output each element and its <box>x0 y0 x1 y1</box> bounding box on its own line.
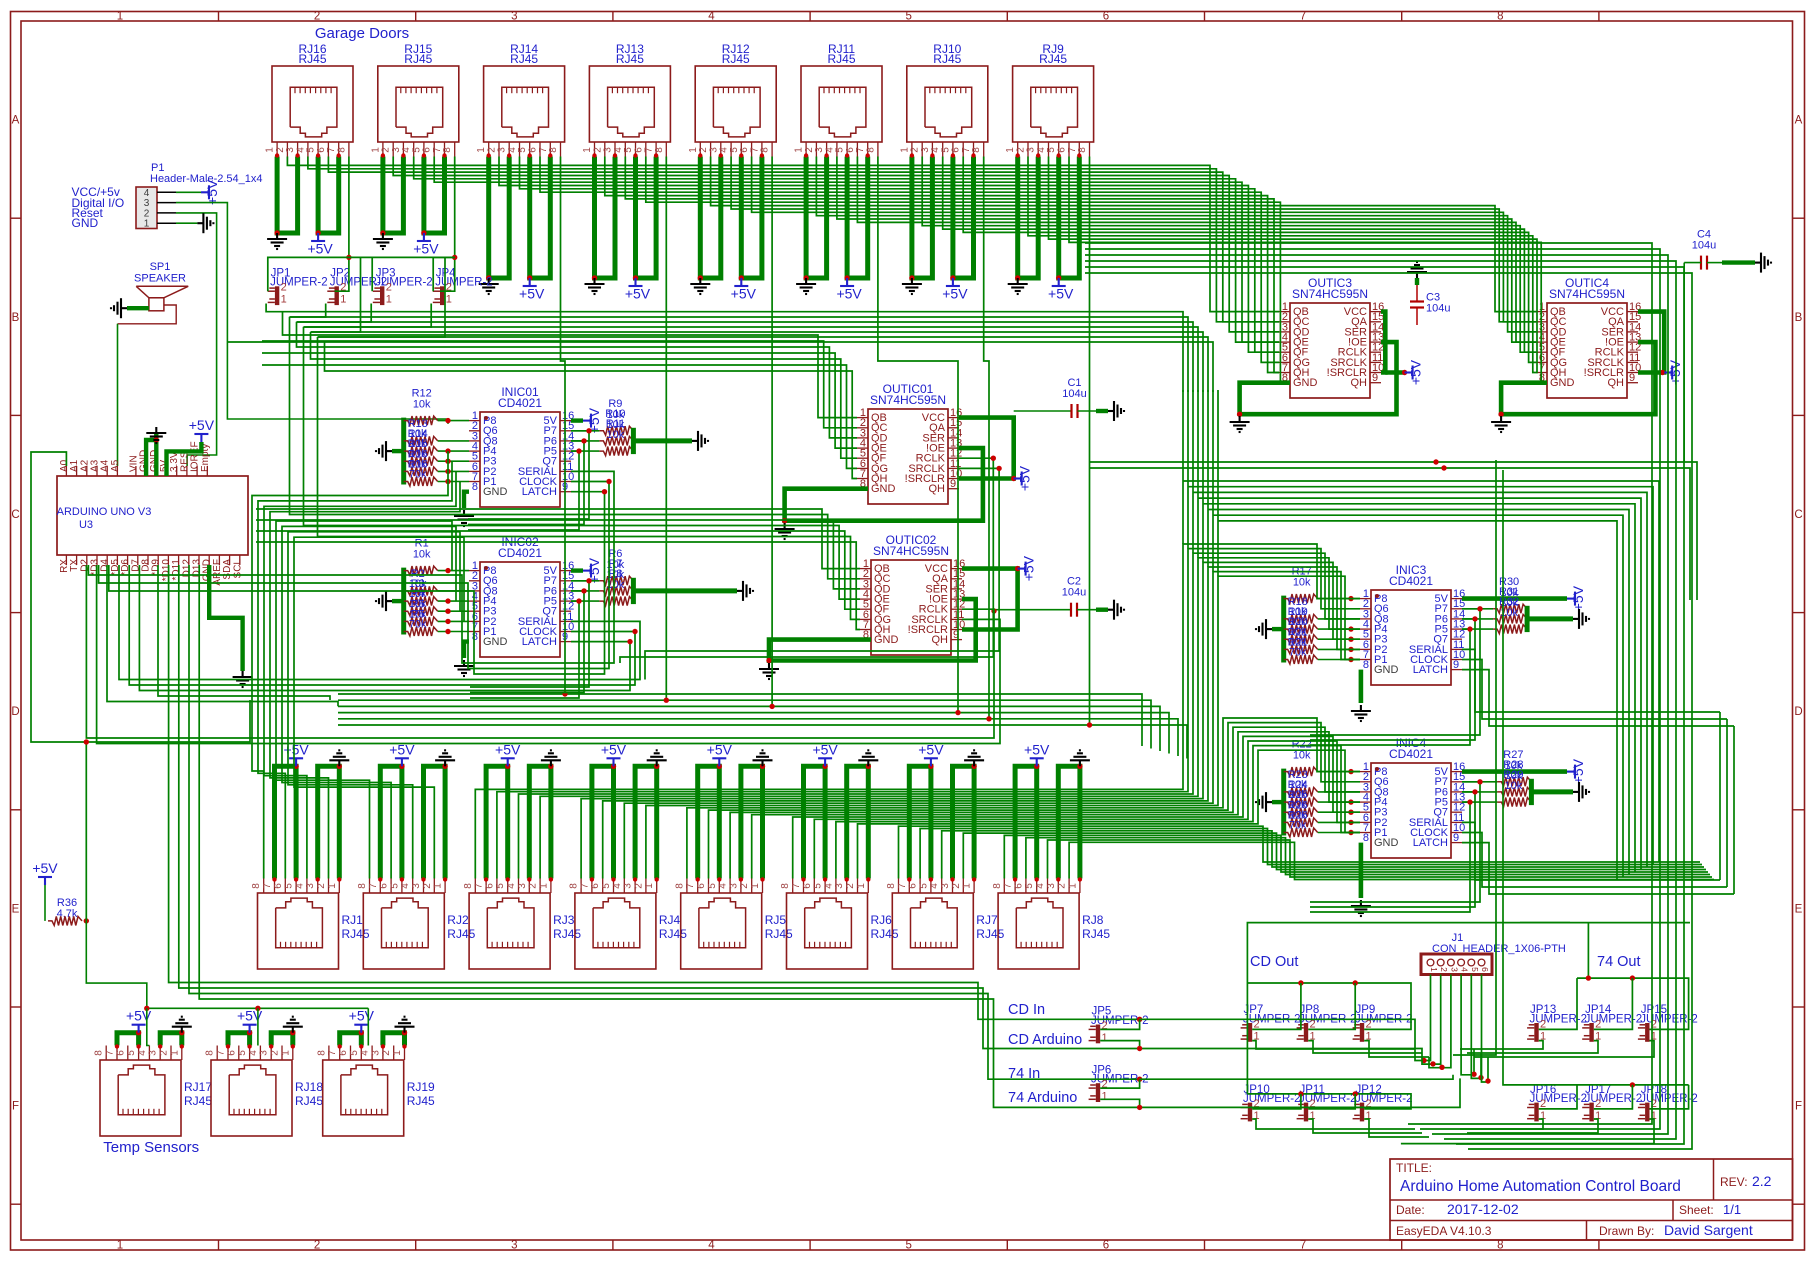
jumper JP8 JUMPER-2 <box>1297 1004 1357 1042</box>
wire RJ5 pins 1-3 ground loop <box>741 766 763 878</box>
wire RJ10 pins 5-7 +5V loop <box>953 157 974 279</box>
svg-text:4: 4 <box>506 883 517 889</box>
wire RJ2 pins 1-3 ground loop <box>424 766 446 878</box>
wire top band to OUTIC3 input <box>287 157 1279 312</box>
wire INIC02 GND pin to ground <box>464 642 469 658</box>
wire U3 5V pin to +5V <box>167 442 202 476</box>
svg-text:10k: 10k <box>607 429 625 441</box>
IC OUTIC4 SN74HC595N <box>1536 276 1641 398</box>
svg-text:7: 7 <box>368 883 379 889</box>
svg-text:CD4021: CD4021 <box>1389 747 1433 761</box>
svg-text:RJ4: RJ4 <box>659 913 681 927</box>
wire D12 74 In rail <box>189 565 1140 1079</box>
wire INIC02 CLOCK out <box>129 565 635 685</box>
wire RJ16 pins 5-7 +5V loop <box>318 157 339 234</box>
svg-text:SN74HC595N: SN74HC595N <box>873 544 949 558</box>
svg-text:1: 1 <box>446 294 452 306</box>
svg-text:Temp Sensors: Temp Sensors <box>103 1139 199 1156</box>
svg-text:+5V: +5V <box>1408 359 1424 385</box>
jumper JP14 JUMPER-2 <box>1582 1004 1642 1042</box>
wire right verticals lower <box>1719 712 1721 880</box>
jumper JP16 JUMPER-2 <box>1527 1084 1587 1122</box>
svg-text:1: 1 <box>144 219 150 230</box>
wire top band to OUTIC3 input <box>434 157 1279 343</box>
wire left bundle to OUTIC02 <box>304 327 861 599</box>
wire right bundle horizontals <box>1090 462 1697 600</box>
wire JP net to mid-right bundle <box>290 317 1189 392</box>
wire staircase to INIC3 right side <box>1208 510 1629 875</box>
svg-text:RJ8: RJ8 <box>1082 913 1104 927</box>
svg-text:1: 1 <box>117 1240 123 1252</box>
+5V flag INIC02 <box>583 564 591 578</box>
wire RJ4 pins 1-3 ground loop <box>635 766 657 878</box>
svg-text:1: 1 <box>392 1050 403 1056</box>
svg-text:1: 1 <box>169 1050 180 1056</box>
IC INIC02 CD4021 <box>469 535 574 657</box>
ground RJ16 <box>267 233 287 249</box>
connector RJ15 RJ45 (garage door) <box>370 42 458 157</box>
wire bottom RJ to INIC3 input <box>581 562 1360 878</box>
svg-text:4: 4 <box>708 11 715 23</box>
wire staircase to INIC3 right side <box>1218 521 1617 880</box>
jumper JP12 JUMPER-2 <box>1353 1084 1413 1122</box>
svg-text:3: 3 <box>623 883 634 889</box>
svg-text:+5V: +5V <box>189 417 215 433</box>
svg-text:TITLE:: TITLE: <box>1396 1161 1432 1175</box>
svg-text:74 Out: 74 Out <box>1597 954 1641 970</box>
svg-text:GND: GND <box>1293 377 1318 389</box>
wire top band to OUTIC4 input <box>922 157 1536 353</box>
svg-text:8: 8 <box>654 147 665 153</box>
ground RJ5 <box>753 750 773 766</box>
svg-text:RJ45: RJ45 <box>295 1094 323 1108</box>
wire top RJ pin8 down to mid band <box>338 157 989 719</box>
wire top band to OUTIC4 input <box>1049 157 1538 373</box>
svg-text:4: 4 <box>137 1050 148 1056</box>
svg-text:CD4021: CD4021 <box>1389 574 1433 588</box>
svg-text:EasyEDA V4.10.3: EasyEDA V4.10.3 <box>1396 1224 1492 1238</box>
ground P1 <box>197 213 213 233</box>
wire bottom RJ under INIC4 to right <box>1026 838 1710 879</box>
svg-text:74 Arduino: 74 Arduino <box>1008 1090 1077 1106</box>
wire JP14 pin1 <box>1467 1041 1598 1053</box>
wire band to OUTIC02 pin <box>256 509 860 569</box>
jumper JP18 JUMPER-2 <box>1638 1084 1698 1122</box>
wire U3 bottom GND to ground <box>209 565 242 671</box>
wire bottom RJ to INIC4 input <box>858 750 1361 878</box>
wire RJ18 pins 1-3 ground loop <box>271 1033 293 1046</box>
svg-text:+5V: +5V <box>1024 741 1050 757</box>
svg-text:GND: GND <box>1374 664 1399 676</box>
svg-text:7: 7 <box>1003 883 1014 889</box>
svg-text:ARDUINO UNO V3: ARDUINO UNO V3 <box>57 506 152 518</box>
wire D9 branch <box>158 565 330 700</box>
svg-text:2: 2 <box>381 1050 392 1056</box>
resistor network R9-R11 (pull-ups) <box>571 398 708 456</box>
svg-text:8: 8 <box>442 147 453 153</box>
wire JP16-18 pin2 rail <box>1577 1084 1689 1086</box>
svg-text:QH: QH <box>1608 377 1625 389</box>
svg-text:6: 6 <box>1103 1240 1109 1252</box>
wire J1 pin drop <box>1415 975 1431 1061</box>
connector RJ11 RJ45 (garage door) <box>794 42 882 157</box>
wire RJ19 pins 5-7 +5V loop <box>340 1033 362 1046</box>
+5V flag RJ11 <box>840 278 854 286</box>
wire P1 pin3 digital io <box>176 203 448 424</box>
svg-text:1: 1 <box>1102 1032 1108 1044</box>
IC OUTIC02 SN74HC595N <box>860 533 965 655</box>
wire top RJ pin8 down to mid band <box>338 157 666 701</box>
svg-text:E: E <box>12 903 20 915</box>
+5V flag P1 <box>201 185 209 199</box>
jumper JP11 JUMPER-2 <box>1297 1084 1357 1122</box>
wire D11 CD Arduino rail <box>179 565 1140 1049</box>
wire top band to OUTIC4 input <box>711 157 1536 312</box>
svg-text:9: 9 <box>1629 372 1635 384</box>
wire right bundle vertical <box>1085 267 1684 1144</box>
wire INIC3 5V to +5V <box>1462 596 1567 601</box>
resistor network R1-R5 (input pull-downs) <box>404 538 469 636</box>
capacitor C1 <box>1062 377 1086 418</box>
wire P1 branch <box>227 341 324 343</box>
svg-text:5: 5 <box>918 883 929 889</box>
wire CD4021 P input feed <box>1310 609 1480 735</box>
wire OUTIC01 SRCLK net <box>645 468 999 679</box>
svg-text:+5V: +5V <box>519 286 545 302</box>
svg-text:CD In: CD In <box>1008 1002 1045 1018</box>
wire mid band right segment <box>958 713 1169 754</box>
wire JP7 pin1 <box>1252 1041 1415 1049</box>
wire RJ7 pins 1-3 ground loop <box>953 766 975 878</box>
svg-text:2.2: 2.2 <box>1752 1173 1772 1189</box>
svg-text:+5V: +5V <box>1021 555 1037 581</box>
wire JP net to mid-right bundle <box>325 342 1214 392</box>
svg-text:8: 8 <box>316 1050 327 1056</box>
ground U3 top <box>146 427 166 443</box>
svg-text:U3: U3 <box>79 519 93 531</box>
svg-text:6: 6 <box>115 1050 126 1056</box>
svg-text:3: 3 <box>1046 883 1057 889</box>
svg-text:Garage Doors: Garage Doors <box>315 25 409 42</box>
svg-text:+5V: +5V <box>836 286 862 302</box>
wire bottom RJ to INIC4 input <box>730 727 1360 878</box>
wire RJ5 pins 5-7 +5V loop <box>698 766 720 878</box>
svg-text:2: 2 <box>159 1050 170 1056</box>
svg-text:1: 1 <box>327 883 338 889</box>
svg-text:3: 3 <box>517 883 528 889</box>
svg-text:1: 1 <box>280 1050 291 1056</box>
jumper JP17 JUMPER-2 <box>1582 1084 1642 1122</box>
wire CD Out net <box>1247 923 1570 1094</box>
ground RJ3 <box>541 750 561 766</box>
wire left bundle to OUTIC01 <box>311 332 858 458</box>
resistor R36 4.7k <box>45 885 82 925</box>
ground RJ15 <box>373 233 393 249</box>
wire RJ14 pins 1-3 ground loop <box>489 157 510 279</box>
wire INIC01 5V stub <box>571 418 583 422</box>
ground RJ18 <box>283 1017 303 1033</box>
wire JP10 pin1 <box>1252 1119 1415 1129</box>
+5V flag RJ7 <box>924 758 938 766</box>
wire bottom RJ to INIC3 input <box>497 549 1360 879</box>
wire band to OUTIC01 pin <box>262 353 857 448</box>
wire bottom RJ under INIC4 to right <box>1048 840 1713 879</box>
wire RJ11 pins 1-3 ground loop <box>806 157 827 279</box>
svg-text:RJ45: RJ45 <box>722 52 750 66</box>
svg-text:8: 8 <box>94 1050 105 1056</box>
wire OUTIC4 !OE to ground rail <box>1501 342 1655 414</box>
wire mid-right bundle vertical <box>1182 390 1184 544</box>
IC INIC01 CD4021 <box>469 385 574 507</box>
svg-text:5: 5 <box>905 1240 911 1252</box>
connector RJ9 RJ45 (garage door) <box>1005 42 1093 157</box>
wire staircase to INIC3 right side <box>1203 504 1635 872</box>
wire CD4021 P input feed <box>470 601 579 698</box>
wire mid-right bundle vertical <box>1207 390 1209 567</box>
ground RJ4 <box>647 750 667 766</box>
svg-text:8: 8 <box>251 883 262 889</box>
svg-text:RJ7: RJ7 <box>976 913 998 927</box>
svg-text:9: 9 <box>1453 659 1459 671</box>
svg-text:8: 8 <box>472 481 478 493</box>
svg-text:GND: GND <box>483 486 508 498</box>
wire RJ13 pins 1-3 ground loop <box>595 157 616 279</box>
wire JP net to mid-right bundle <box>304 327 1199 392</box>
ground RJ10 <box>902 278 922 294</box>
connector RJ6 RJ45 <box>780 879 899 970</box>
svg-text:4: 4 <box>360 1050 371 1056</box>
wire bottom RJ under INIC4 to right <box>1004 835 1708 878</box>
wire mid-right bundle vertical <box>1197 390 1199 558</box>
wire CD4021 P input feed <box>468 431 589 519</box>
svg-text:9: 9 <box>1453 832 1459 844</box>
svg-text:2: 2 <box>316 883 327 889</box>
svg-text:SPEAKER: SPEAKER <box>134 273 186 285</box>
wire top band to OUTIC4 input <box>731 157 1536 322</box>
wire bottom RJ to INIC01/02 input weave <box>282 526 456 878</box>
svg-text:3: 3 <box>148 1050 159 1056</box>
wire INIC4 5V to +5V <box>1462 769 1567 774</box>
wire top RJ pin8 down to mid band <box>338 157 772 707</box>
svg-text:RJ45: RJ45 <box>659 927 687 941</box>
svg-text:6: 6 <box>484 883 495 889</box>
svg-text:RJ19: RJ19 <box>407 1080 435 1094</box>
wire INIC01 left net bar to ground <box>392 449 404 453</box>
wire OUTIC02 SRCLK net <box>97 565 1000 744</box>
svg-text:5: 5 <box>905 11 911 23</box>
svg-text:2: 2 <box>314 1240 320 1252</box>
svg-text:2: 2 <box>386 282 392 294</box>
svg-text:8: 8 <box>357 883 368 889</box>
ground RJ13 <box>585 278 605 294</box>
svg-text:A5: A5 <box>110 459 121 472</box>
svg-text:8: 8 <box>1077 147 1088 153</box>
svg-text:GND: GND <box>871 483 896 495</box>
connector RJ2 RJ45 <box>357 879 476 970</box>
wire bottom RJ to INIC3 input <box>519 553 1361 878</box>
wire JP3 pin1 down <box>297 304 372 323</box>
svg-text:2: 2 <box>314 11 320 23</box>
svg-text:6: 6 <box>1013 883 1024 889</box>
svg-text:RJ45: RJ45 <box>298 52 326 66</box>
svg-text:1: 1 <box>281 294 287 306</box>
ground OUTIC4 <box>1491 416 1511 432</box>
+5V flag RJ3 <box>501 758 515 766</box>
wire RJ1 pins 1-3 ground loop <box>318 766 340 878</box>
svg-text:8: 8 <box>472 631 478 643</box>
svg-text:3: 3 <box>305 883 316 889</box>
IC INIC4 CD4021 <box>1360 736 1465 858</box>
+5V flag INIC3 <box>1567 592 1575 606</box>
+5V flag OUTIC02 <box>1018 562 1026 576</box>
svg-text:+5V: +5V <box>731 286 757 302</box>
wire bottom RJ under INIC4 to right <box>920 829 1702 879</box>
wire bottom RJ to INIC3 input <box>540 558 1360 879</box>
wire right bundle vertical <box>1085 243 1652 1124</box>
wire bottom RJ to INIC01/02 input weave <box>258 461 452 878</box>
wire mid band right segment <box>1090 725 1188 759</box>
svg-text:+5V: +5V <box>32 860 58 876</box>
ground INIC4 pulldowns <box>1256 792 1272 812</box>
svg-text:RJ45: RJ45 <box>765 927 793 941</box>
wire U3 A0 loop left <box>31 452 250 742</box>
svg-text:RJ1: RJ1 <box>342 913 364 927</box>
wire RJ3 pins 1-3 ground loop <box>529 766 551 878</box>
svg-text:LATCH: LATCH <box>1413 837 1448 849</box>
wire left bundle to OUTIC01 <box>325 342 858 479</box>
wire top band to OUTIC4 input <box>943 157 1536 353</box>
capacitor C2 <box>1062 576 1086 617</box>
jumper JP6 JUMPER-2 <box>1089 1064 1149 1102</box>
svg-text:GND: GND <box>1374 837 1399 849</box>
wire OUTIC02 RCLK net <box>86 565 994 738</box>
svg-text:4: 4 <box>400 883 411 889</box>
svg-text:+5V: +5V <box>625 286 651 302</box>
svg-text:9: 9 <box>1372 372 1378 384</box>
svg-text:D: D <box>1794 706 1802 718</box>
+5V flag RJ6 <box>818 758 832 766</box>
svg-text:A: A <box>12 115 20 127</box>
jumper JP2 JUMPER-2 <box>327 268 387 306</box>
wire top band to OUTIC3 input <box>540 157 1279 363</box>
wire JP net to mid-right bundle <box>297 322 1194 392</box>
svg-text:2: 2 <box>633 883 644 889</box>
capacitor C4 <box>1692 229 1716 270</box>
wire OUTIC02 GND to ground rail <box>769 640 871 663</box>
svg-text:2: 2 <box>739 883 750 889</box>
wire SP1 to A5 <box>118 305 177 324</box>
svg-text:C: C <box>11 509 19 521</box>
wire JP11 pin1 <box>1308 1119 1422 1133</box>
wire top band to OUTIC3 input <box>393 157 1279 332</box>
wire RJ6 pins 5-7 +5V loop <box>804 766 826 878</box>
wire RJ18 pins 5-7 +5V loop <box>228 1033 250 1046</box>
wire J1 pin drop <box>1422 975 1441 1065</box>
svg-text:1: 1 <box>386 294 392 306</box>
capacitor C3 <box>1410 292 1450 315</box>
capacitor C2 wiring <box>994 609 1071 611</box>
wire RJ15 pins 5-7 +5V loop <box>424 157 445 234</box>
wire left bundle to OUTIC01 <box>297 322 858 438</box>
wire RJ15 pins 1-3 ground loop <box>383 157 404 234</box>
svg-text:1: 1 <box>644 883 655 889</box>
svg-text:A: A <box>1795 115 1803 127</box>
svg-text:6: 6 <box>590 883 601 889</box>
svg-text:RJ45: RJ45 <box>976 927 1004 941</box>
wire mid-right bundle vertical <box>1217 390 1219 576</box>
wire INIC02 SERIAL out <box>119 565 640 680</box>
svg-text:4: 4 <box>929 883 940 889</box>
svg-text:Sheet:: Sheet: <box>1679 1203 1714 1217</box>
+5V flag RJ9 <box>1052 278 1066 286</box>
connector RJ10 RJ45 (garage door) <box>899 42 987 157</box>
wire JP10-12 pin2 rail <box>1247 1094 1411 1109</box>
jumper JP4 JUMPER-2 <box>433 268 493 306</box>
connector RJ12 RJ45 (garage door) <box>688 42 776 157</box>
svg-text:RJ2: RJ2 <box>447 913 469 927</box>
svg-text:CD Arduino: CD Arduino <box>1008 1032 1082 1048</box>
wire RJ8 pins 1-3 ground loop <box>1058 766 1080 878</box>
svg-text:4: 4 <box>708 1240 715 1252</box>
wire top RJ pin8 down to mid band <box>338 157 1090 726</box>
svg-text:LATCH: LATCH <box>522 486 557 498</box>
wire OUTIC01 RCLK net <box>620 458 993 663</box>
svg-text:5: 5 <box>601 883 612 889</box>
wire RJ16 pins 1-3 ground loop <box>277 157 298 234</box>
svg-text:GND: GND <box>72 216 99 230</box>
wire bottom RJ to INIC01/02 input weave <box>252 451 448 878</box>
svg-text:8: 8 <box>336 147 347 153</box>
wire INIC01 LATCH out <box>109 492 605 674</box>
+5V flag RJ1 <box>289 758 303 766</box>
svg-text:RJ45: RJ45 <box>447 927 475 941</box>
svg-text:QH: QH <box>932 634 949 646</box>
wire left bundle to OUTIC02 <box>290 317 861 579</box>
wire RJ12 pins 5-7 +5V loop <box>741 157 762 279</box>
wire JP9 pin1 <box>1364 1041 1429 1057</box>
wire top band to OUTIC4 input <box>837 157 1536 343</box>
svg-text:8: 8 <box>463 883 474 889</box>
connector P1 Header-Male-2.54_1x4 <box>136 162 263 230</box>
wire CD4021 P input feed <box>470 581 589 687</box>
wire OUTIC01 !OE loop to ground rail <box>785 448 983 521</box>
ground C1 <box>1108 401 1124 421</box>
wire JP15 pin1 <box>1474 1041 1654 1057</box>
wire RJ15 pin8 to JP4 <box>440 157 455 292</box>
connector RJ18 RJ45 <box>205 1046 324 1137</box>
svg-text:GND: GND <box>1550 377 1575 389</box>
wire mid band right segment <box>989 719 1178 756</box>
resistor network R6-R8 (pull-ups) <box>571 548 753 606</box>
wire RJ10 pins 1-3 ground loop <box>912 157 933 279</box>
svg-text:RJ45: RJ45 <box>1039 52 1067 66</box>
wire RJ13 pins 5-7 +5V loop <box>636 157 657 279</box>
svg-text:10k: 10k <box>1293 577 1311 589</box>
svg-text:104u: 104u <box>1692 240 1716 252</box>
resistor network R30-R32 (pull-ups) <box>1462 576 1589 634</box>
svg-text:7: 7 <box>474 883 485 889</box>
svg-text:6: 6 <box>908 883 919 889</box>
+5V flag RJ10 <box>946 278 960 286</box>
wire JP16 rail feed <box>1503 1060 1577 1085</box>
svg-text:9: 9 <box>950 478 956 490</box>
wire JP net to mid-right bundle <box>318 337 1209 392</box>
wire top RJ pin8 down to mid band <box>338 157 565 695</box>
svg-text:4: 4 <box>1035 883 1046 889</box>
svg-text:+5V: +5V <box>349 1008 375 1024</box>
svg-text:REV:: REV: <box>1720 1175 1748 1189</box>
svg-text:8: 8 <box>674 883 685 889</box>
